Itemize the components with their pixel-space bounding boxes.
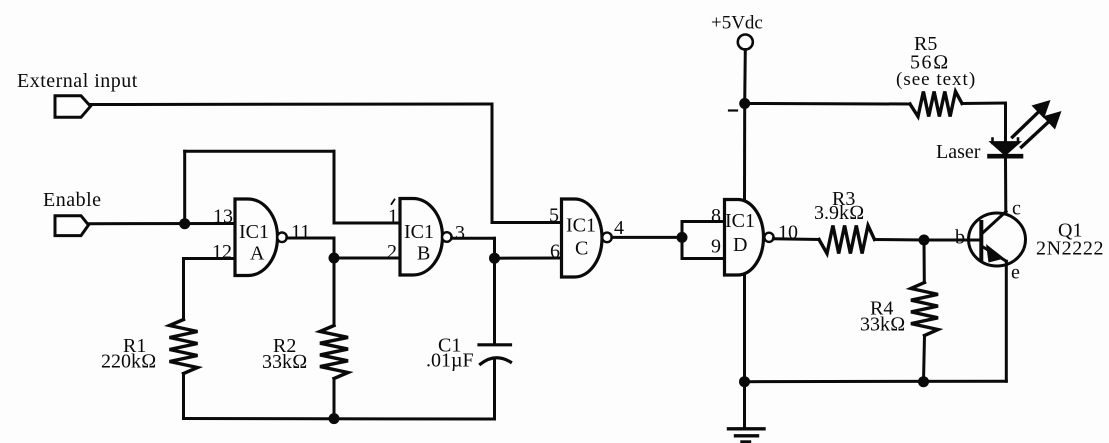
svg-text:33kΩ: 33kΩ	[262, 351, 307, 373]
svg-text:D: D	[733, 234, 747, 256]
svg-text:Laser: Laser	[936, 141, 981, 163]
wire emitter vertical down	[1005, 261, 1008, 381]
wire pin 9 of IC1D	[682, 257, 725, 260]
bubble IC1A output	[277, 233, 287, 243]
svg-text:11: 11	[291, 221, 310, 243]
wire pin 1 of IC1B	[334, 222, 400, 225]
svg-text:8: 8	[711, 205, 721, 227]
svg-text:External input: External input	[17, 70, 138, 92]
op-amp IC1 D nand gate body	[725, 200, 764, 276]
wire IC1D output 10	[773, 237, 819, 241]
wire C1 top vertical	[493, 258, 496, 343]
wire external input horizontal to C stage	[91, 103, 493, 107]
transistor Q1 circle	[969, 213, 1026, 266]
transistor Q1 base bar	[979, 222, 983, 259]
wire feedback vertical down to pin 1	[333, 151, 336, 223]
svg-text:12: 12	[212, 241, 232, 263]
svg-text:IC1: IC1	[404, 221, 434, 243]
capacitor C1 top plate	[479, 343, 511, 346]
wire +5V junction to R5	[745, 102, 910, 106]
wire R4 top vertical	[923, 240, 926, 283]
junction pin6 node	[489, 253, 500, 264]
wire collector vertical up	[1004, 158, 1007, 212]
resistor R4	[911, 283, 938, 336]
wire pin 8 of IC1D	[682, 220, 725, 223]
junction pin2 node	[329, 253, 340, 264]
svg-text:2N2222: 2N2222	[1036, 238, 1104, 260]
svg-text:1: 1	[388, 206, 398, 228]
wire feedback top rail	[185, 150, 334, 153]
svg-text:IC1: IC1	[566, 215, 596, 237]
junction base node	[919, 235, 930, 246]
junction +5V R5 node	[739, 98, 750, 109]
junction rail at IC1D	[739, 376, 750, 387]
svg-text:IC1: IC1	[725, 210, 755, 232]
wire Enable to pin 13 of IC1A	[89, 222, 236, 225]
svg-text:Enable: Enable	[43, 189, 102, 211]
wire R2 top vertical	[333, 258, 336, 326]
wire artifact dash	[729, 109, 737, 111]
emission arrow 2 head	[1043, 111, 1062, 130]
wire pin 6 of IC1C	[495, 257, 562, 260]
transistor Q1 emitter arrowhead	[986, 244, 1005, 263]
svg-text:.01µF: .01µF	[426, 350, 474, 372]
power +5Vdc terminal	[738, 35, 753, 50]
connector External input flag	[55, 96, 91, 118]
svg-text:e: e	[1011, 262, 1020, 284]
svg-text:c: c	[1012, 198, 1021, 220]
svg-text:220kΩ: 220kΩ	[101, 351, 156, 373]
wire bottom-left rail	[184, 417, 495, 421]
bubble IC1B output	[442, 232, 452, 242]
op-amp IC1 A nand gate body	[235, 199, 278, 276]
svg-text:(see text): (see text)	[896, 69, 976, 90]
wire bottom-right rail	[745, 380, 1007, 384]
transistor Q1 emitter diagonal	[982, 246, 1007, 261]
svg-text:13: 13	[213, 206, 233, 228]
wire pin 5 of IC1C	[492, 221, 562, 224]
emission arrow 2 shaft	[1022, 121, 1051, 148]
junction IC1D input node	[677, 232, 688, 243]
resistor R5	[910, 92, 962, 117]
svg-text:9: 9	[711, 236, 721, 258]
wire IC1B output 3	[452, 237, 495, 240]
wire output 11 corner down	[333, 238, 336, 258]
svg-text:5: 5	[549, 205, 559, 227]
bubble IC1D output	[764, 233, 773, 242]
wire R2 bottom vertical	[333, 379, 336, 419]
junction bottom-left rail at R2	[329, 413, 340, 424]
wire input bracket vertical	[681, 222, 684, 259]
svg-text:2: 2	[387, 241, 397, 263]
wire corner down to laser	[1004, 103, 1007, 143]
wire external input vertical down to pin 5	[491, 104, 494, 223]
capacitor C1 bottom plate curved	[481, 358, 511, 364]
wire R1 top vertical	[182, 259, 185, 320]
svg-text:IC1: IC1	[239, 221, 269, 243]
resistor R1	[170, 320, 198, 374]
svg-text:6: 6	[550, 241, 560, 263]
svg-text:B: B	[417, 243, 430, 265]
wire feedback vertical left	[183, 151, 186, 223]
svg-text:+5Vdc: +5Vdc	[711, 13, 763, 34]
wire R1 bottom vertical	[182, 374, 185, 419]
junction enable feedback	[179, 218, 190, 229]
diode laser cathode bar	[990, 154, 1022, 159]
wire pin 12 of IC1A horizontal	[184, 257, 236, 260]
wire pin 2 of IC1B	[334, 257, 400, 260]
svg-text:C: C	[575, 238, 588, 260]
svg-text:4: 4	[614, 217, 624, 239]
wire R4 bottom vertical	[924, 336, 925, 382]
svg-text:b: b	[955, 227, 965, 249]
svg-text:33kΩ: 33kΩ	[860, 314, 905, 336]
wire base to Q1	[924, 239, 981, 242]
junction rail at R4	[918, 376, 929, 387]
bubble IC1C output	[602, 233, 612, 243]
wire output 3 corner down	[493, 238, 496, 258]
artifact tick above pin 1	[392, 200, 395, 205]
wire R5 to laser corner	[962, 102, 1006, 106]
emission arrow 1 shaft	[1013, 111, 1041, 138]
wire IC1D bottom to rail	[743, 275, 746, 428]
transistor Q1 collector diagonal	[982, 212, 1007, 235]
resistor R2	[320, 326, 348, 379]
wire R3 to base node	[875, 238, 925, 242]
diode laser triangle	[992, 142, 1020, 154]
wire C1 bottom vertical	[493, 361, 496, 419]
resistor R3	[819, 226, 875, 254]
connector Enable flag	[55, 216, 89, 236]
wire +5V down to IC1D top	[743, 104, 746, 200]
op-amp IC1 C nand gate body	[562, 199, 603, 277]
svg-text:3: 3	[455, 222, 465, 244]
emission arrow 1 head	[1032, 100, 1051, 119]
ground	[729, 429, 765, 442]
svg-text:3.9kΩ: 3.9kΩ	[814, 202, 864, 224]
op-amp IC1 B nand gate body	[400, 199, 443, 276]
svg-text:A: A	[250, 243, 265, 265]
wire IC1A output 11	[287, 237, 334, 240]
wire +5V vertical down	[743, 50, 747, 104]
wire IC1C output 4	[612, 236, 682, 239]
